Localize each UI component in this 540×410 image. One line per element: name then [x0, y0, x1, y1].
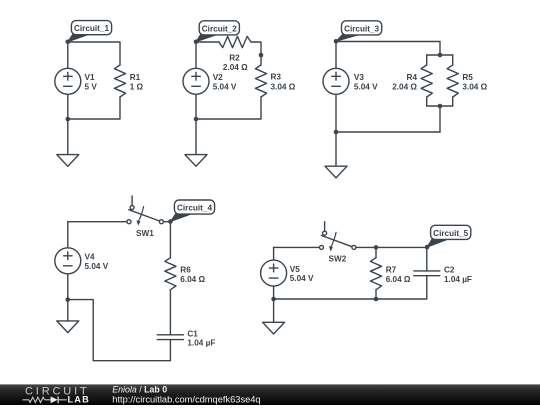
svg-text:Eniola / Lab 0: Eniola / Lab 0	[112, 385, 167, 395]
svg-text:R1: R1	[130, 73, 141, 82]
svg-text:5 V: 5 V	[85, 82, 98, 91]
svg-text:5.04 V: 5.04 V	[85, 262, 109, 271]
svg-text:R7: R7	[386, 266, 397, 275]
svg-text:Circuit_5: Circuit_5	[433, 229, 468, 238]
svg-text:R4: R4	[407, 73, 418, 82]
svg-text:3.04 Ω: 3.04 Ω	[462, 82, 487, 91]
svg-text:5.04 V: 5.04 V	[213, 82, 237, 91]
svg-text:Circuit_4: Circuit_4	[177, 204, 212, 213]
svg-text:V3: V3	[354, 73, 364, 82]
svg-text:Circuit_2: Circuit_2	[202, 24, 237, 33]
svg-text:6.04 Ω: 6.04 Ω	[386, 275, 411, 284]
svg-text:R2: R2	[229, 54, 240, 63]
svg-text:5.04 V: 5.04 V	[354, 82, 378, 91]
svg-text:R6: R6	[180, 266, 191, 275]
svg-text:V5: V5	[290, 265, 300, 274]
svg-text:V1: V1	[85, 73, 95, 82]
svg-text:R3: R3	[271, 73, 282, 82]
svg-text:SW1: SW1	[136, 229, 154, 238]
svg-text:R5: R5	[462, 73, 473, 82]
svg-text:C2: C2	[444, 265, 455, 274]
svg-text:1.04 µF: 1.04 µF	[187, 339, 215, 348]
svg-text:3.04 Ω: 3.04 Ω	[271, 82, 296, 91]
svg-text:2.04 Ω: 2.04 Ω	[392, 82, 417, 91]
svg-text:5.04 V: 5.04 V	[290, 274, 314, 283]
svg-text:6.04 Ω: 6.04 Ω	[180, 275, 205, 284]
svg-text:Circuit_1: Circuit_1	[74, 24, 109, 33]
svg-text:V4: V4	[85, 253, 95, 262]
svg-text:http://circuitlab.com/cdmqefk6: http://circuitlab.com/cdmqefk63se4q	[112, 395, 260, 405]
svg-text:V2: V2	[213, 73, 223, 82]
svg-text:1.04 µF: 1.04 µF	[444, 275, 472, 284]
svg-text:SW2: SW2	[329, 255, 347, 264]
svg-text:LAB: LAB	[68, 395, 90, 405]
svg-text:2.04 Ω: 2.04 Ω	[223, 63, 248, 72]
svg-text:C1: C1	[187, 329, 198, 338]
svg-text:1 Ω: 1 Ω	[130, 82, 144, 91]
svg-text:Circuit_3: Circuit_3	[344, 24, 379, 33]
